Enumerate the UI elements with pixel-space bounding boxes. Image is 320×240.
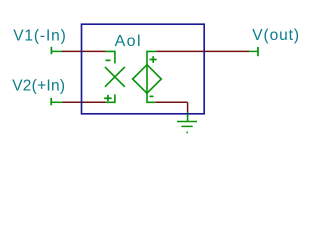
svg-text:V(out): V(out): [252, 27, 300, 44]
svg-text:V1(-In): V1(-In): [13, 27, 67, 44]
svg-text:V2(+In): V2(+In): [12, 77, 66, 94]
svg-text:Aol: Aol: [115, 33, 142, 50]
